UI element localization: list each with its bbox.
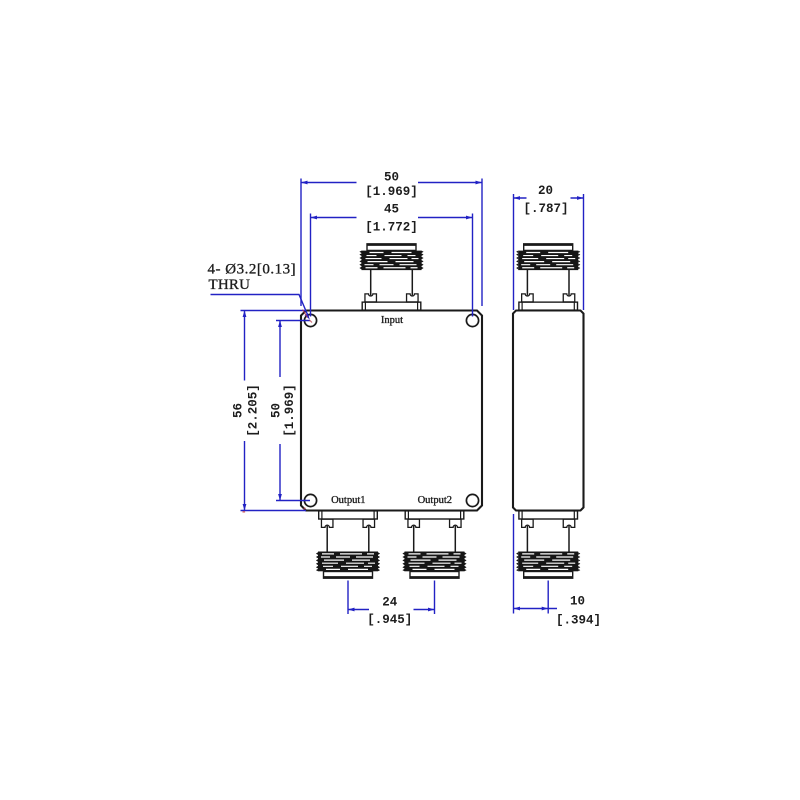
dimension 10 bottom side: dimension line xyxy=(514,608,558,610)
dimension 45: extension lines xyxy=(311,214,473,317)
red artifact near top-left hole xyxy=(303,310,308,318)
dimension 20 side: extension lines xyxy=(514,194,584,310)
svg-text:[1.772]: [1.772] xyxy=(365,221,418,235)
output2 connector (front view, bottom-right) xyxy=(402,511,466,578)
dimension 45: arrows xyxy=(311,216,473,220)
front view body xyxy=(301,311,482,511)
dimension 56 left: extension lines xyxy=(241,311,307,511)
mounting hole bottom-left xyxy=(304,494,316,506)
svg-text:45: 45 xyxy=(384,203,399,217)
svg-text:[.945]: [.945] xyxy=(367,613,412,627)
mounting hole bottom-right xyxy=(466,494,478,506)
dimension 10 bottom side: extension lines xyxy=(514,514,549,614)
dimension 50 left vertical: arrows xyxy=(278,321,282,501)
dimension 56 left: arrows xyxy=(243,311,247,511)
dimension 50 top: extension lines xyxy=(301,179,482,307)
svg-text:[.394]: [.394] xyxy=(556,614,601,628)
output connector (side view, bottom) xyxy=(516,511,580,578)
svg-text:20: 20 xyxy=(538,184,553,198)
hole note leader xyxy=(211,295,309,317)
svg-text:[2.205]: [2.205] xyxy=(246,384,260,437)
dimension 45: dimension line xyxy=(311,217,473,219)
side view body xyxy=(513,311,584,511)
input connector (side view, top) xyxy=(516,244,580,310)
svg-text:50: 50 xyxy=(269,403,283,418)
svg-text:[1.969]: [1.969] xyxy=(283,384,297,437)
dimension 56 left: dimension line xyxy=(244,311,246,511)
dimension 50 top: dimension line xyxy=(301,182,482,184)
svg-text:Input: Input xyxy=(381,315,403,326)
svg-text:10: 10 xyxy=(570,595,585,609)
dimension 24 bottom: arrows xyxy=(348,608,435,612)
dimension 24 bottom: dimension line xyxy=(348,609,435,611)
mounting hole top-right xyxy=(466,314,478,326)
hole note leader arrow xyxy=(305,313,310,319)
dimension 50 left vertical: dimension line xyxy=(279,321,281,501)
svg-text:THRU: THRU xyxy=(209,277,251,293)
svg-text:Output2: Output2 xyxy=(418,495,452,506)
dimension 20 side: dimension line xyxy=(514,197,584,199)
dimension 50 top: arrows xyxy=(301,181,482,185)
mounting hole top-left xyxy=(304,314,316,326)
svg-text:[.787]: [.787] xyxy=(523,202,568,216)
dimension 10 bottom side: arrows xyxy=(514,607,549,611)
input connector (front view, top) xyxy=(359,244,423,310)
output1 connector (front view, bottom-left) xyxy=(316,511,380,578)
svg-text:50: 50 xyxy=(384,171,399,185)
dimension 24 bottom: extension lines xyxy=(348,581,435,615)
svg-text:56: 56 xyxy=(231,403,245,418)
svg-text:[1.969]: [1.969] xyxy=(365,185,418,199)
dimension 20 side: arrows xyxy=(514,196,584,200)
svg-text:4- Ø3.2[0.13]: 4- Ø3.2[0.13] xyxy=(208,262,297,278)
svg-text:Output1: Output1 xyxy=(331,495,365,506)
svg-text:24: 24 xyxy=(382,596,398,610)
red artifact near bottom-left corner xyxy=(243,511,246,513)
dimension 50 left vertical: extension lines xyxy=(276,321,310,501)
